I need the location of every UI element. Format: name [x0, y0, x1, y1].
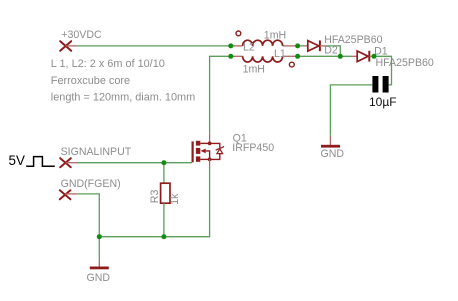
channel segments	[196, 141, 200, 162]
supply pin X (+30VDC)	[60, 41, 71, 51]
inductor L1	[243, 56, 283, 62]
node D2 cathode junction	[338, 54, 343, 59]
svg-text:R3: R3	[149, 190, 161, 204]
polarity dot L2	[236, 31, 241, 36]
node L1 left	[228, 54, 233, 59]
svg-text:1mH: 1mH	[243, 64, 265, 76]
capacitor C1 plates	[372, 76, 388, 93]
inductor L1 pins	[231, 55, 243, 57]
svg-text:length = 120mm, diam. 10mm: length = 120mm, diam. 10mm	[51, 92, 195, 104]
svg-text:D2: D2	[324, 44, 338, 56]
svg-text:IRFP450: IRFP450	[232, 142, 274, 154]
wire drain net horizontal (L1 left)	[210, 56, 231, 134]
svg-text:GND(FGEN): GND(FGEN)	[61, 178, 121, 190]
pin wire +30VDC	[66, 45, 77, 47]
wire signal net to gate	[77, 162, 192, 164]
resistor R3 branch wire upper	[163, 163, 165, 184]
svg-text:GND: GND	[321, 148, 345, 160]
pin X (GND(FGEN))	[60, 190, 71, 199]
pin wire drain	[209, 134, 211, 144]
wire D1 to capacitor	[374, 56, 392, 85]
diode D1	[357, 51, 369, 62]
node L2 left	[228, 43, 233, 48]
pin wire GND (under cap)	[329, 136, 331, 145]
wire L1 to D1	[298, 55, 352, 57]
body diode	[210, 143, 220, 147]
transistor Q1	[193, 141, 224, 163]
wire source down and bottom net	[99, 167, 209, 237]
pin wire D2 anode	[303, 45, 308, 47]
drain node dot	[208, 142, 212, 146]
node fgen/bottom junction	[97, 234, 102, 239]
inductor L2	[243, 40, 283, 46]
pin wire GND(FGEN)	[65, 193, 77, 195]
inductor L2 pins	[231, 45, 243, 47]
wire fgen net to GND	[98, 237, 100, 261]
pin wire D2 cathode	[320, 45, 326, 47]
pin wire source	[209, 159, 211, 167]
ground symbol (under cap)	[321, 145, 340, 148]
gate bar	[192, 141, 194, 162]
svg-text:L2: L2	[243, 41, 255, 53]
pin wire D1 anode	[352, 55, 357, 57]
svg-text:1k: 1k	[169, 193, 181, 205]
svg-text:5V: 5V	[9, 153, 25, 168]
drain pin line	[200, 142, 209, 144]
substrate arrow	[201, 149, 206, 154]
svg-text:+30VDC: +30VDC	[61, 29, 102, 41]
svg-text:SIGNALINPUT: SIGNALINPUT	[61, 146, 132, 158]
resistor R3 branch wire lower	[163, 203, 165, 237]
resistor R3	[161, 183, 170, 203]
node L2 right	[295, 43, 300, 48]
svg-text:10µF: 10µF	[369, 95, 397, 109]
wire fgen net down	[77, 194, 99, 237]
node L1 right	[295, 54, 300, 59]
polarity dot L1	[289, 62, 294, 67]
wire L2 to D2	[298, 45, 303, 47]
pin X (SIGNALINPUT)	[60, 158, 71, 167]
node D1 cathode junction	[372, 54, 377, 59]
wire capacitor to GND	[330, 85, 372, 136]
svg-text:L 1, L2: 2 x 6m of 10/10: L 1, L2: 2 x 6m of 10/10	[51, 58, 165, 70]
pin wire GND (bottom)	[98, 261, 100, 267]
svg-text:GND: GND	[87, 272, 111, 284]
pulse symbol	[26, 157, 55, 167]
svg-text:HFA25PB60: HFA25PB60	[376, 57, 434, 69]
diode D2	[308, 40, 320, 51]
source node dot	[208, 158, 212, 162]
node gate/R3 junction	[161, 160, 166, 165]
ground symbol (bottom left)	[90, 267, 109, 270]
wire D2 cathode down to drain net	[326, 46, 341, 56]
svg-text:1mH: 1mH	[264, 30, 286, 42]
pin wire SIGNALINPUT	[66, 162, 78, 164]
pin wire D1 cathode	[369, 55, 374, 57]
source pin line	[200, 158, 209, 160]
svg-text:L1: L1	[274, 48, 286, 60]
node R3 bottom junction	[161, 234, 166, 239]
svg-text:Ferroxcube core: Ferroxcube core	[51, 75, 130, 87]
wire net +30VDC to L2	[77, 45, 231, 47]
